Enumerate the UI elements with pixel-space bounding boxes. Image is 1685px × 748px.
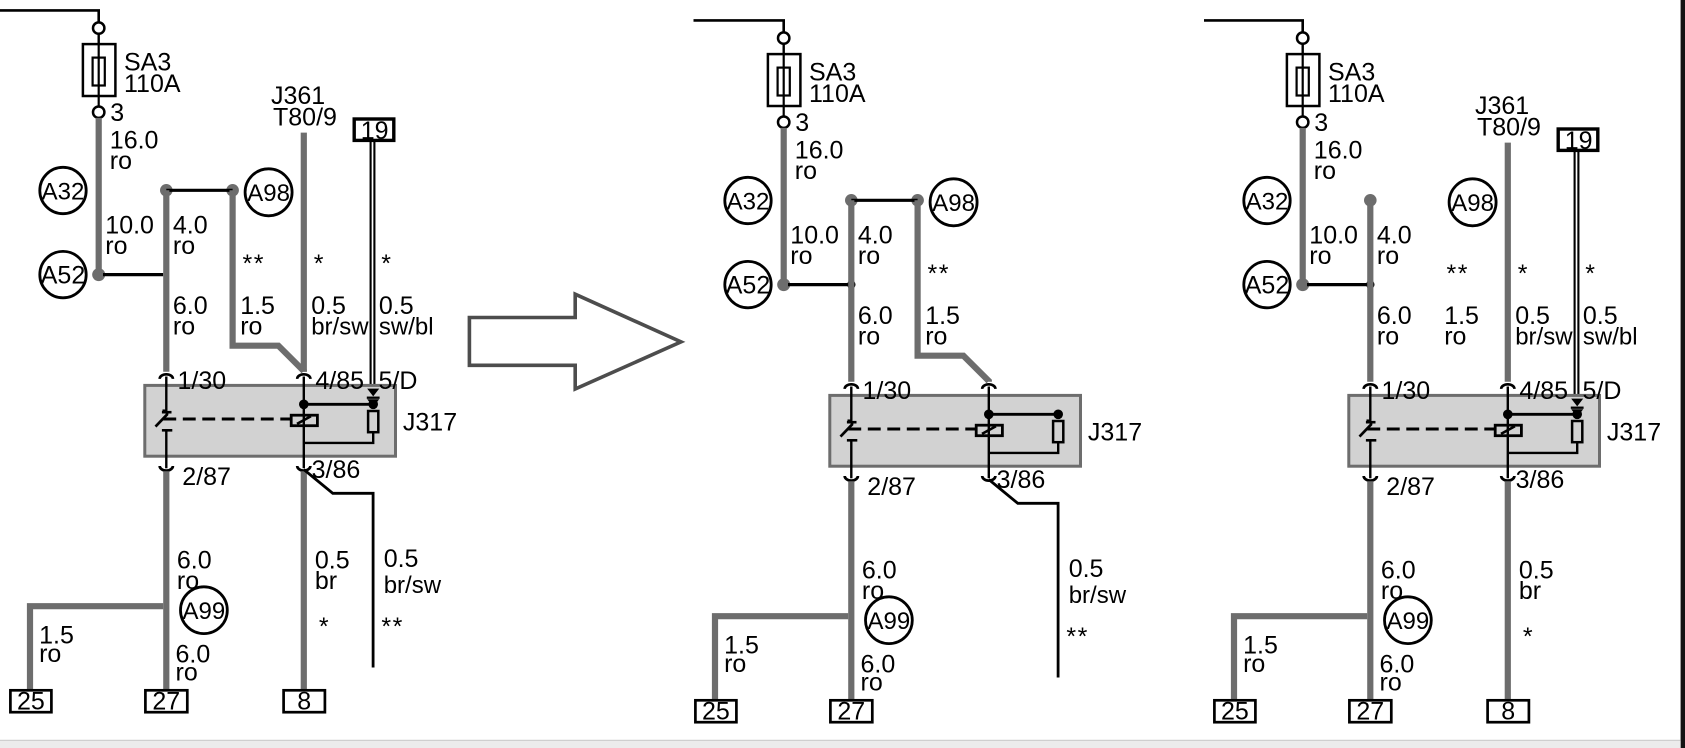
- node A32: [725, 177, 771, 223]
- svg-text:J317: J317: [403, 408, 457, 436]
- svg-text:br/sw: br/sw: [311, 314, 369, 341]
- terminal arc 4/85: [1501, 384, 1514, 389]
- wire 0.5 br/sw from 3/86 (thin): [989, 480, 1058, 678]
- wire 16.0 ro: [1300, 128, 1306, 285]
- wire terminal 4/85 through relay to 3/86: [303, 377, 305, 469]
- wire 16.0 ro: [781, 128, 787, 285]
- svg-text:A52: A52: [726, 271, 770, 299]
- double arrow from 5/D: [1571, 399, 1584, 417]
- terminal cup 3/86: [1501, 476, 1514, 481]
- relay contact switch: [156, 411, 173, 469]
- svg-text:3: 3: [795, 109, 809, 137]
- node A52: [725, 261, 771, 307]
- svg-text:T80/9: T80/9: [273, 104, 337, 132]
- relay resistor: [1053, 421, 1063, 442]
- wire terminal 4/85 through relay to 3/86: [988, 387, 990, 479]
- label 0.5 sw/bl upper: [1583, 302, 1638, 351]
- svg-text:ro: ro: [240, 313, 262, 341]
- double arrow from 5/D: [367, 389, 380, 407]
- wire 0.5 br/sw from 3/86 (thin): [304, 470, 373, 668]
- wire A52 junction to 6.0 wire: [1307, 283, 1370, 286]
- big modification arrow: [469, 294, 681, 389]
- label SA3 110A: [124, 49, 181, 98]
- terminal cup 2/87: [160, 466, 173, 471]
- junction dot at A52: [777, 278, 790, 291]
- svg-text:5/D: 5/D: [1583, 377, 1622, 405]
- svg-text:J317: J317: [1088, 418, 1142, 446]
- svg-text:A99: A99: [868, 608, 911, 635]
- svg-text:**: **: [1066, 623, 1088, 651]
- svg-text:ro: ro: [724, 650, 746, 678]
- terminal arc 4/85: [297, 374, 310, 379]
- junction dot coil top: [984, 410, 994, 420]
- connector box 19: [1558, 127, 1598, 155]
- svg-text:ro: ro: [1243, 650, 1265, 678]
- wire fuse to pin 3 ring: [1302, 106, 1304, 117]
- wire A52 junction to 6.0 wire: [103, 273, 163, 276]
- wire coil top to resistor top: [1508, 413, 1577, 416]
- label 4.0 ro: [173, 211, 208, 260]
- fuse SA3 110A: [768, 54, 801, 106]
- label 0.5 br/sw bottom: [384, 545, 442, 599]
- svg-text:ro: ro: [1314, 157, 1336, 185]
- wire 19 to 5/D (double): [1575, 152, 1579, 400]
- wire battery feed (diagram 2): [694, 20, 784, 32]
- node A52: [1244, 261, 1290, 307]
- label 0.5 br bottom: [1519, 556, 1554, 605]
- junction dot coil top: [299, 400, 309, 410]
- terminal arc 1/30: [1364, 384, 1377, 389]
- svg-text:110A: 110A: [124, 70, 181, 98]
- ground terminal box 27: [145, 688, 187, 716]
- label 0.5 br/sw bottom: [1069, 555, 1127, 609]
- dashed actuation line: [848, 428, 976, 431]
- wire 16.0 ro: [96, 118, 102, 275]
- junction dot resistor top: [1053, 410, 1063, 420]
- fuse SA3 110A: [1287, 54, 1320, 106]
- wire 0.5 br from 3/86: [301, 471, 307, 691]
- label 0.5 sw/bl upper: [379, 292, 434, 341]
- svg-text:*: *: [319, 613, 329, 641]
- label 6.0 ro below A99: [861, 651, 896, 697]
- label SA3 110A: [1328, 59, 1385, 108]
- terminal cup 2/87: [845, 476, 858, 481]
- svg-text:1/30: 1/30: [178, 367, 227, 395]
- wire 6.0 ro from 2/87: [163, 471, 169, 691]
- svg-text:ro: ro: [858, 323, 880, 351]
- node A99: [181, 587, 228, 634]
- node A52: [40, 251, 86, 297]
- svg-text:ro: ro: [105, 232, 127, 260]
- svg-text:5/D: 5/D: [379, 367, 418, 395]
- wire between junction dots: [851, 199, 917, 202]
- label 1.5 ro bottom: [39, 622, 74, 668]
- dashed actuation line: [1367, 428, 1495, 431]
- svg-text:A98: A98: [247, 180, 290, 207]
- junction dot resistor top: [368, 400, 378, 410]
- ground terminal box 27: [830, 698, 872, 726]
- wire 6.0 ro from 2/87: [1367, 481, 1373, 701]
- label 6.0 ro above A99: [1381, 556, 1416, 605]
- wire ring to fuse: [783, 44, 785, 54]
- label 6.0 ro below A99: [1380, 651, 1415, 697]
- wire fuse to pin 3 ring: [98, 96, 100, 107]
- label 1.5 ro bottom: [1243, 632, 1278, 678]
- wire resistor bottom return: [989, 442, 1058, 453]
- svg-text:ro: ro: [173, 232, 195, 260]
- label 1.5 ro upper: [1444, 302, 1479, 351]
- svg-text:3/86: 3/86: [1516, 466, 1565, 494]
- svg-text:3/86: 3/86: [312, 456, 361, 484]
- junction dot black: [1366, 280, 1374, 288]
- relay coil: [291, 415, 317, 426]
- svg-text:19: 19: [1565, 127, 1593, 155]
- label J361 T80/9: [271, 82, 337, 132]
- terminal arc 1/30: [845, 384, 858, 389]
- svg-text:2/87: 2/87: [182, 463, 231, 491]
- terminal ring above fuse SA3: [778, 32, 789, 43]
- wire A52 junction to 6.0 wire: [788, 283, 851, 286]
- svg-text:A32: A32: [727, 188, 770, 215]
- label 16.0 ro: [110, 127, 159, 176]
- window right border: [1681, 0, 1685, 748]
- dashed actuation line: [163, 418, 291, 421]
- junction dot left: [160, 184, 173, 197]
- label 4.0 ro: [858, 221, 893, 270]
- svg-text:3: 3: [1314, 109, 1328, 137]
- label J361 T80/9: [1475, 92, 1541, 142]
- svg-text:2/87: 2/87: [1386, 473, 1435, 501]
- svg-text:27: 27: [1356, 698, 1384, 726]
- wire 19 to 5/D (double): [371, 142, 375, 390]
- label 16.0 ro: [795, 137, 844, 186]
- relay contact switch: [841, 421, 858, 479]
- svg-text:1/30: 1/30: [1382, 377, 1431, 405]
- relay J317 box: [830, 395, 1081, 466]
- label 16.0 ro: [1314, 137, 1363, 186]
- wire 6.0 ro from 2/87: [848, 481, 854, 701]
- ground terminal box 25: [10, 688, 51, 716]
- ground terminal box 25: [1214, 698, 1255, 726]
- svg-text:25: 25: [702, 698, 730, 726]
- terminal ring pin 3: [778, 117, 789, 128]
- svg-text:*: *: [381, 250, 391, 278]
- label 10.0 ro: [105, 211, 154, 260]
- svg-text:ro: ro: [1377, 242, 1399, 270]
- junction dot right: [911, 194, 924, 207]
- wire T80/9 0.5 br/sw: [301, 133, 307, 372]
- svg-text:ro: ro: [795, 157, 817, 185]
- svg-text:1/30: 1/30: [863, 377, 912, 405]
- svg-text:br: br: [315, 567, 337, 595]
- label 10.0 ro: [790, 221, 839, 270]
- terminal cup 3/86: [297, 466, 310, 471]
- wire terminal 1/30 into relay: [1369, 387, 1371, 421]
- svg-text:A32: A32: [42, 178, 85, 205]
- window bottom bar: [0, 740, 1681, 748]
- svg-text:br/sw: br/sw: [1515, 324, 1573, 351]
- svg-text:ro: ro: [1381, 577, 1403, 605]
- terminal arc 1/30: [160, 374, 173, 379]
- wire 1.5 ro bottom to terminal 25: [30, 606, 163, 691]
- svg-text:ro: ro: [861, 669, 883, 697]
- svg-text:ro: ro: [1380, 669, 1402, 697]
- svg-text:4/85: 4/85: [315, 367, 364, 395]
- ground terminal box 27: [1349, 698, 1391, 726]
- relay coil: [1495, 425, 1521, 436]
- svg-text:110A: 110A: [809, 80, 866, 108]
- terminal ring above fuse SA3: [93, 22, 104, 33]
- label 1.5 ro bottom: [724, 632, 759, 678]
- svg-text:4/85: 4/85: [1519, 377, 1568, 405]
- svg-text:**: **: [381, 613, 403, 641]
- connector box 19: [354, 117, 394, 145]
- svg-text:ro: ro: [176, 659, 198, 687]
- wire 1.5 ro to terminal 4/85: [233, 190, 304, 371]
- terminal ring pin 3: [93, 107, 104, 118]
- wire between junction dots: [166, 189, 232, 192]
- svg-text:27: 27: [837, 698, 865, 726]
- label 6.0 ro above A99: [177, 546, 212, 595]
- label 0.5 br/sw upper: [311, 292, 369, 341]
- label 6.0 ro upper: [1377, 302, 1412, 351]
- wire coil top to resistor top: [304, 403, 373, 406]
- junction dot at A52: [92, 268, 105, 281]
- label 6.0 ro upper: [173, 292, 208, 341]
- svg-text:A99: A99: [1387, 608, 1430, 635]
- ground terminal box 8: [284, 688, 325, 716]
- wire 1.5 ro to terminal 4/85: [918, 200, 989, 381]
- svg-text:A99: A99: [183, 598, 226, 625]
- node A98: [930, 179, 977, 226]
- wire terminal 4/85 through relay to 3/86: [1507, 387, 1509, 479]
- wire T80/9 0.5 br/sw: [1505, 143, 1511, 382]
- label 6.0 ro upper: [858, 302, 893, 351]
- terminal cup 2/87: [1364, 476, 1377, 481]
- svg-text:J317: J317: [1607, 418, 1661, 446]
- node A32: [1244, 177, 1290, 223]
- svg-text:8: 8: [297, 688, 311, 716]
- svg-text:A98: A98: [932, 190, 975, 217]
- svg-text:ro: ro: [1377, 323, 1399, 351]
- svg-text:25: 25: [17, 688, 45, 716]
- label 1.5 ro upper: [240, 292, 275, 341]
- label 4.0 ro: [1377, 221, 1412, 270]
- junction dot at A52: [1296, 278, 1309, 291]
- ground terminal box 8: [1488, 698, 1529, 726]
- label 0.5 br bottom: [315, 546, 350, 595]
- wire battery feed (diagram 3): [1204, 20, 1303, 32]
- wire fuse to pin 3 ring: [783, 106, 785, 117]
- svg-text:A32: A32: [1246, 188, 1289, 215]
- svg-text:ro: ro: [925, 323, 947, 351]
- relay J317 box: [1349, 395, 1600, 466]
- node A32: [40, 167, 86, 213]
- wire resistor bottom return: [1508, 442, 1577, 453]
- junction dot left: [1364, 194, 1377, 207]
- wire 1.5 ro bottom to terminal 25: [715, 616, 848, 701]
- wire 4.0 / 6.0 ro: [163, 190, 169, 371]
- svg-text:ro: ro: [1444, 323, 1466, 351]
- junction dot black: [847, 280, 855, 288]
- terminal ring above fuse SA3: [1297, 32, 1308, 43]
- relay contact switch: [1360, 421, 1377, 479]
- label 1.5 ro upper: [925, 302, 960, 351]
- svg-text:ro: ro: [862, 577, 884, 605]
- node A98: [245, 169, 292, 216]
- svg-text:ro: ro: [790, 242, 812, 270]
- svg-text:*: *: [1585, 260, 1595, 288]
- svg-text:A52: A52: [1245, 271, 1289, 299]
- svg-text:3/86: 3/86: [997, 466, 1046, 494]
- svg-text:*: *: [314, 250, 324, 278]
- wire battery feed (diagram 1): [0, 10, 99, 22]
- relay resistor: [368, 411, 378, 432]
- svg-text:ro: ro: [39, 640, 61, 668]
- svg-text:ro: ro: [110, 147, 132, 175]
- ground terminal box 25: [695, 698, 736, 726]
- fuse SA3 110A: [83, 44, 116, 96]
- wire 1.5 ro bottom to terminal 25: [1234, 616, 1367, 701]
- terminal arc 4/85: [982, 384, 995, 389]
- svg-text:0.5: 0.5: [1069, 555, 1104, 583]
- junction dot coil top: [1503, 410, 1513, 420]
- node A98: [1449, 179, 1496, 226]
- node A99: [866, 597, 913, 644]
- label SA3 110A: [809, 59, 866, 108]
- svg-text:A52: A52: [41, 261, 85, 289]
- svg-text:*: *: [1523, 623, 1533, 651]
- svg-text:**: **: [1447, 260, 1469, 288]
- svg-text:3: 3: [110, 99, 124, 127]
- svg-text:ro: ro: [858, 242, 880, 270]
- svg-text:T80/9: T80/9: [1477, 114, 1541, 142]
- node A99: [1385, 597, 1432, 644]
- wire coil top to resistor top: [989, 413, 1058, 416]
- svg-text:ro: ro: [173, 313, 195, 341]
- svg-text:A98: A98: [1451, 190, 1494, 217]
- svg-text:ro: ro: [1309, 242, 1331, 270]
- wire terminal 1/30 into relay: [850, 387, 852, 421]
- wire resistor bottom return: [304, 432, 373, 443]
- label 6.0 ro above A99: [862, 556, 897, 605]
- svg-text:br: br: [1519, 577, 1541, 605]
- relay resistor: [1572, 421, 1582, 442]
- junction dot right: [226, 184, 239, 197]
- svg-text:19: 19: [361, 117, 389, 145]
- svg-text:2/87: 2/87: [867, 473, 916, 501]
- label 6.0 ro below A99: [176, 641, 211, 687]
- junction dot resistor top: [1572, 410, 1582, 420]
- relay J317 box: [145, 385, 396, 456]
- wire terminal 1/30 into relay: [165, 377, 167, 411]
- relay coil: [976, 425, 1002, 436]
- junction dot left: [845, 194, 858, 207]
- label 10.0 ro: [1309, 221, 1358, 270]
- wire 4.0 / 6.0 ro: [848, 200, 854, 381]
- svg-text:ro: ro: [177, 567, 199, 595]
- label 0.5 br/sw upper: [1515, 302, 1573, 351]
- svg-text:110A: 110A: [1328, 80, 1385, 108]
- wire ring to fuse: [1301, 44, 1303, 54]
- wire 0.5 br from 3/86: [1505, 481, 1511, 701]
- svg-text:sw/bl: sw/bl: [1583, 324, 1638, 351]
- wire 4.0 / 6.0 ro: [1367, 200, 1373, 381]
- wire ring to fuse: [97, 34, 99, 44]
- svg-text:sw/bl: sw/bl: [379, 314, 434, 341]
- svg-text:**: **: [243, 250, 265, 278]
- svg-text:0.5: 0.5: [384, 545, 419, 573]
- svg-text:25: 25: [1221, 698, 1249, 726]
- svg-text:**: **: [928, 260, 950, 288]
- svg-text:br/sw: br/sw: [384, 572, 442, 599]
- terminal ring pin 3: [1297, 117, 1308, 128]
- svg-text:*: *: [1518, 260, 1528, 288]
- svg-text:27: 27: [152, 688, 180, 716]
- terminal cup 3/86: [982, 476, 995, 481]
- svg-text:8: 8: [1501, 698, 1515, 726]
- svg-text:br/sw: br/sw: [1069, 582, 1127, 609]
